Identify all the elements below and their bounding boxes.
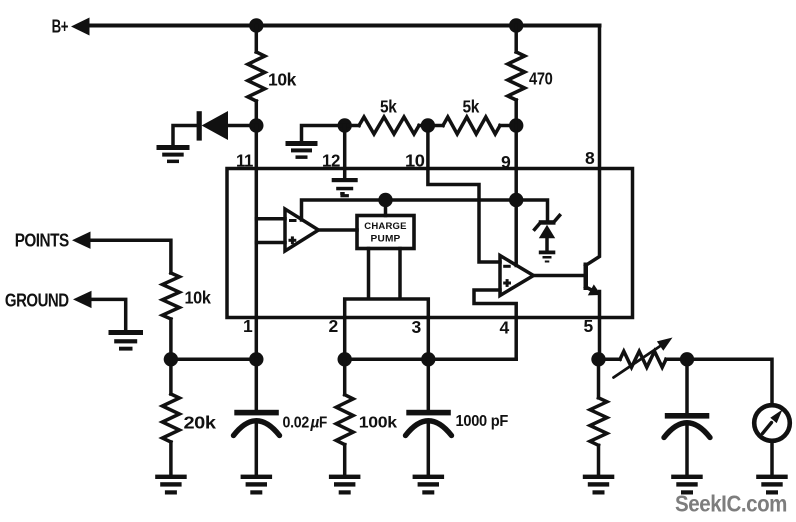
capacitor C1 0.02uF <box>234 410 280 436</box>
label 0.02uF <box>283 415 328 432</box>
wire R7 top lead <box>343 359 347 394</box>
resistor R7 100k <box>336 395 353 445</box>
node rail-470 <box>509 18 523 32</box>
wire R6 top lead <box>169 359 173 394</box>
wire internal supply net <box>302 200 548 220</box>
svg-text:SeekIC.com: SeekIC.com <box>675 491 787 517</box>
svg-text:CHARGE: CHARGE <box>364 220 406 231</box>
wire pin12 internal <box>343 126 347 179</box>
svg-text:11: 11 <box>236 151 254 171</box>
wire U1b plus input / pin4 <box>474 290 516 359</box>
wire C2 top lead <box>427 359 431 410</box>
svg-text:12: 12 <box>322 151 341 171</box>
svg-text:5k: 5k <box>380 97 397 117</box>
B+ arrow <box>71 18 90 36</box>
svg-text:PUMP: PUMP <box>371 233 401 244</box>
node D1-R1 junction <box>249 118 263 132</box>
svg-text:8: 8 <box>585 148 595 168</box>
wire U1a output <box>319 228 358 232</box>
svg-text:9: 9 <box>501 152 511 172</box>
svg-text:1000 pF: 1000 pF <box>456 413 509 430</box>
node charge pump supply <box>378 193 392 207</box>
svg-text:10k: 10k <box>268 70 297 90</box>
svg-text:GROUND: GROUND <box>5 291 69 311</box>
node pin3 bottom <box>421 352 435 366</box>
wire R4 bottom lead <box>514 100 518 126</box>
wire C2 bottom lead <box>427 422 431 476</box>
GROUND arrow <box>73 291 92 308</box>
capacitor C2 1000pF <box>406 410 452 436</box>
ground C2 <box>413 475 445 495</box>
resistor R6 20k <box>162 394 179 442</box>
svg-text:5: 5 <box>584 316 594 336</box>
svg-text:0.02: 0.02 <box>283 415 310 432</box>
wire pin8 / Q1 collector <box>586 26 600 266</box>
wire GROUND <box>87 299 126 330</box>
svg-text:B+: B+ <box>52 17 68 37</box>
wire bus mid <box>345 358 429 362</box>
node R5-R6 junction <box>164 352 178 366</box>
diode D1 <box>197 111 228 141</box>
wire pin2 external <box>343 318 347 360</box>
node pin12 top <box>338 118 352 132</box>
resistor R3 5k <box>443 117 500 134</box>
svg-text:5k: 5k <box>463 97 480 117</box>
wire pin10 internal <box>428 126 500 263</box>
wire B+ rail <box>85 24 600 28</box>
wire meter feed <box>687 359 772 405</box>
wire pin11 vertical <box>255 126 259 318</box>
resistor R8 <box>590 398 607 446</box>
wire D1 cathode lead <box>173 126 197 146</box>
wire meter bottom lead <box>770 441 774 476</box>
wire bus to pin4 <box>428 358 516 362</box>
wire C1 top lead <box>255 359 259 410</box>
wire C3 bottom lead <box>685 425 689 476</box>
ground R7 <box>329 475 361 495</box>
wire U1a plus input <box>256 241 285 245</box>
U1a plus sign <box>289 236 297 244</box>
wire R6 bottom lead <box>169 442 173 475</box>
resistor R2 5k <box>359 117 419 134</box>
resistor R1 10k <box>248 52 265 101</box>
ground D1 <box>157 145 190 163</box>
rheostat VR1 <box>620 351 666 367</box>
zener D2 <box>535 215 560 251</box>
svg-text:1: 1 <box>243 316 253 336</box>
node pin10 top <box>421 118 435 132</box>
capacitor C3 <box>664 413 710 438</box>
wire POINTS <box>86 240 171 273</box>
transistor Q1 base bar <box>584 263 589 291</box>
wire charge pump to pins 2,3 <box>345 249 429 318</box>
node pin9 top <box>509 118 523 132</box>
wire D1 anode lead <box>228 124 256 128</box>
wire pin9 internal <box>514 126 518 266</box>
svg-text:20k: 20k <box>184 413 217 433</box>
wire charge pump top lead <box>384 200 388 216</box>
ground R8 <box>583 475 615 495</box>
wire pin3 external <box>427 318 431 360</box>
svg-text:4: 4 <box>500 318 510 338</box>
wire R1 top lead <box>255 26 259 53</box>
svg-text:10: 10 <box>405 151 425 171</box>
ground R6 <box>155 475 187 495</box>
VR1 arrow <box>614 338 673 378</box>
wire pin1 external <box>255 318 259 360</box>
U1b minus sign <box>503 265 511 268</box>
wire R8 top lead <box>597 359 601 398</box>
wire R3 leads <box>428 124 516 128</box>
U1b plus sign <box>503 279 511 287</box>
Q1 emitter <box>586 284 602 359</box>
op-amp U1a <box>285 209 319 251</box>
POINTS arrow <box>72 232 91 249</box>
svg-text:F: F <box>319 415 327 432</box>
ground internal pin12 <box>332 178 358 197</box>
wire C1 bottom lead <box>255 422 259 476</box>
svg-text:3: 3 <box>412 317 422 337</box>
svg-text:POINTS: POINTS <box>15 230 69 250</box>
ground pin12 external <box>286 141 318 159</box>
wire R8 bottom lead <box>597 445 601 475</box>
wire R2 leads <box>345 124 428 128</box>
ground C3 <box>671 475 703 495</box>
ground zener D2 <box>539 251 556 263</box>
ground meter <box>756 475 788 495</box>
stray minus mark <box>340 192 345 195</box>
node rail-10k <box>249 18 263 32</box>
resistor R4 470 <box>508 52 525 100</box>
wire C3 top lead <box>685 359 689 414</box>
wire VR1 right lead <box>666 358 687 362</box>
svg-text:10k: 10k <box>185 287 212 307</box>
svg-text:µ: µ <box>310 415 320 432</box>
svg-text:470: 470 <box>529 69 553 89</box>
node pin1 bottom <box>249 352 263 366</box>
resistor R5 10k <box>162 273 179 319</box>
svg-text:2: 2 <box>329 316 339 336</box>
op-amp U1b <box>500 256 534 296</box>
svg-text:100k: 100k <box>359 415 398 432</box>
ground C1 <box>241 475 273 495</box>
node pin2 bottom <box>338 352 352 366</box>
wire R4 top lead <box>514 26 518 53</box>
charge pump box <box>357 216 414 249</box>
node pin9 supply <box>509 193 523 207</box>
U1a minus sign <box>289 219 297 222</box>
wire U1a minus input <box>256 217 285 221</box>
IC U1 outline <box>227 169 633 318</box>
node VR1-C3 junction <box>680 352 694 366</box>
wire R5 bottom lead <box>169 319 173 359</box>
node pin5 bottom <box>591 352 605 366</box>
meter M1 <box>754 405 790 441</box>
wire U1b output <box>534 274 585 278</box>
wire R7 bottom lead <box>343 445 347 475</box>
wire pin12 to ground <box>302 126 345 142</box>
wire VR1 left lead <box>599 358 621 362</box>
ground GROUND symbol <box>109 330 144 351</box>
wire bus left <box>171 358 256 362</box>
wire R1 bottom lead <box>255 101 259 126</box>
